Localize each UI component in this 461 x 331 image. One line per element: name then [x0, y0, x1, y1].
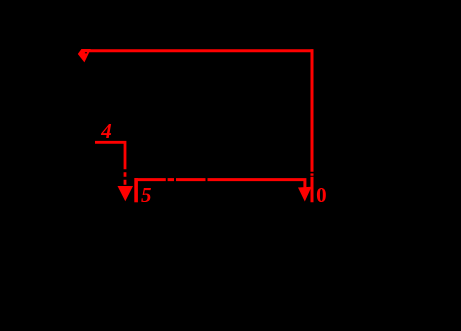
wire: top horizontal from arrow A1 to right vertical	[84, 49, 313, 52]
arrowhead A1 inner notch	[85, 51, 87, 53]
arrowhead A3 (bottom-right, pointing down)	[298, 187, 312, 202]
svg-text:4: 4	[100, 119, 112, 143]
wire: lower horizontal from node 5 to node 0 elbow	[136, 180, 305, 188]
wire: elbow from label 4 down to arrowhead A2 (dashed near bottom)	[95, 142, 125, 186]
wire: node 5 vertical tick	[134, 178, 138, 202]
arrowhead A1 (top-left, pointing down)	[78, 49, 91, 62]
arrowhead A2 (bottom-middle, pointing down)	[118, 186, 134, 201]
wire: right vertical down from top wire to node 0	[311, 49, 314, 202]
svg-text:5: 5	[141, 183, 152, 207]
svg-text:0: 0	[316, 183, 327, 207]
